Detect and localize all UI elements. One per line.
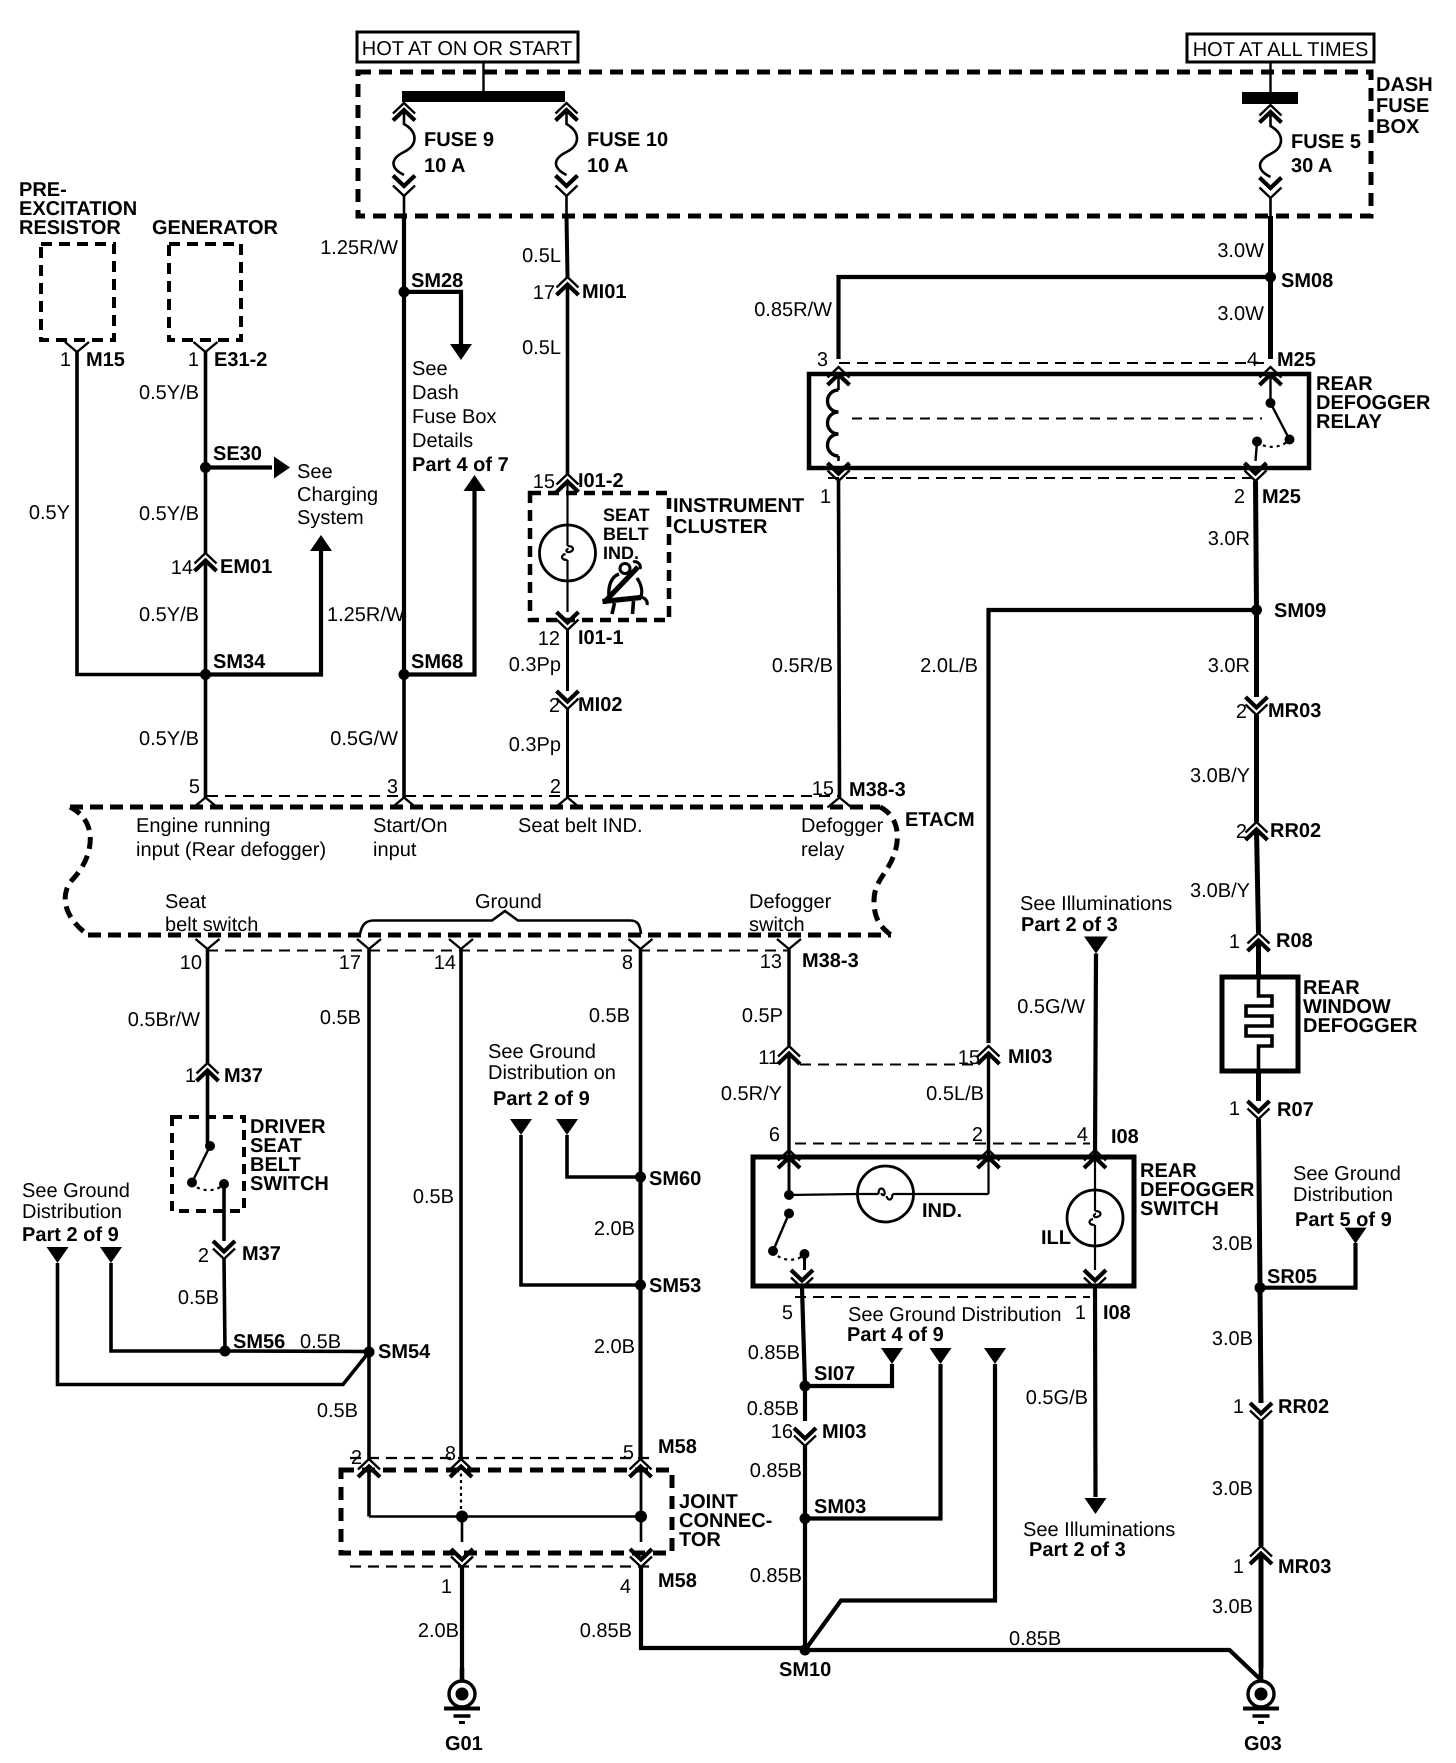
svg-text:5: 5: [189, 776, 200, 798]
svg-text:0.5B: 0.5B: [320, 1007, 361, 1029]
svg-text:0.5Y/B: 0.5Y/B: [139, 382, 199, 404]
arrow to See Charging System: [206, 465, 273, 469]
wire MI03 to SM03 (0.85B): [803, 1446, 807, 1519]
svg-text:DASH: DASH: [1376, 74, 1433, 96]
relay switch: [1269, 375, 1271, 403]
connector M58 dashed line (bottom): [350, 1565, 652, 1567]
wire E31-2 down to SE30 (0.5Y/B): [204, 352, 208, 467]
branch SM68 up-arrow to Part 4 of 7: [404, 491, 475, 675]
bus bar (fuse 5 feed): [1242, 92, 1298, 104]
connector MI03 dashed line: [800, 1064, 980, 1066]
wire arrow to SM60: [567, 1135, 641, 1177]
svg-text:0.3Pp: 0.3Pp: [509, 734, 561, 756]
svg-text:CLUSTER: CLUSTER: [673, 516, 768, 538]
svg-text:SM60: SM60: [649, 1168, 701, 1190]
svg-text:1: 1: [1075, 1302, 1086, 1324]
branch SR05 to ground distribution part 5 (arrow): [1260, 1243, 1356, 1288]
svg-text:0.85B: 0.85B: [747, 1398, 799, 1420]
switch pin 6 connector: [778, 1150, 800, 1161]
svg-text:2.0B: 2.0B: [594, 1336, 635, 1358]
joint connector pin 8: [450, 1459, 472, 1470]
svg-text:See Illuminations: See Illuminations: [1020, 893, 1172, 915]
arrow from illuminations: [1084, 937, 1108, 954]
wire SM34 to ETACM pin 5 (0.5Y/B): [204, 675, 208, 798]
ETACM pin 17: [357, 939, 381, 949]
svg-text:3: 3: [817, 349, 828, 371]
node SM03: [800, 1513, 811, 1524]
wire SM08 to relay pin 4 (3.0W): [1268, 277, 1273, 359]
svg-text:Dash: Dash: [412, 382, 459, 404]
relay mechanical link (dashed): [852, 418, 1262, 420]
svg-text:10 A: 10 A: [424, 155, 466, 177]
svg-text:1.25R/W: 1.25R/W: [320, 237, 398, 259]
svg-text:Details: Details: [412, 430, 473, 452]
node SR05: [1255, 1282, 1266, 1293]
joint connector box: [341, 1470, 672, 1553]
svg-text:17: 17: [339, 952, 361, 974]
svg-text:MI03: MI03: [822, 1421, 866, 1443]
ground G03: [1259, 1668, 1264, 1682]
branch arrow to SM10: [805, 1364, 995, 1650]
illumination lamp ILL: [1094, 1158, 1096, 1190]
svg-text:0.85B: 0.85B: [748, 1342, 800, 1364]
wire RR02 to R08 (3.0B/Y): [1257, 830, 1259, 933]
svg-text:2: 2: [1236, 821, 1247, 843]
wire fuse 5 to SM08 (3.0W): [1269, 198, 1272, 216]
HOT AT ALL TIMES box: [1187, 34, 1374, 62]
svg-text:See Ground: See Ground: [1293, 1163, 1401, 1185]
wire relay pin 1 to ETACM pin 15 (0.5R/B): [839, 481, 840, 798]
ground G01: [460, 1668, 465, 1682]
branch SM34 to charging system (1.25R/W): [206, 551, 322, 675]
svg-text:13: 13: [760, 951, 782, 973]
svg-text:3.0W: 3.0W: [1217, 240, 1264, 262]
svg-text:SWITCH: SWITCH: [250, 1173, 329, 1195]
svg-text:15: 15: [533, 471, 555, 493]
ETACM pin 3: [392, 798, 416, 808]
svg-text:0.5R/Y: 0.5R/Y: [721, 1083, 782, 1105]
svg-text:0.5Y/B: 0.5Y/B: [139, 604, 199, 626]
svg-text:4: 4: [620, 1576, 631, 1598]
svg-text:Charging: Charging: [297, 484, 378, 506]
svg-text:1: 1: [1229, 1098, 1240, 1120]
svg-text:3.0B: 3.0B: [1212, 1328, 1253, 1350]
wire SI07 to MI03 pin 16 (0.85B): [803, 1386, 807, 1421]
ETACM pin 5: [194, 798, 218, 808]
svg-text:MI01: MI01: [582, 281, 626, 303]
node SI07: [800, 1381, 811, 1392]
svg-text:ILL: ILL: [1041, 1227, 1071, 1249]
svg-text:SR05: SR05: [1267, 1266, 1317, 1288]
svg-text:SM10: SM10: [779, 1659, 831, 1681]
svg-text:2: 2: [1236, 701, 1247, 723]
svg-text:0.85B: 0.85B: [750, 1565, 802, 1587]
ETACM pin 2: [556, 798, 580, 808]
svg-text:M25: M25: [1277, 349, 1316, 371]
svg-text:0.5P: 0.5P: [742, 1005, 783, 1027]
svg-text:4: 4: [1247, 349, 1258, 371]
svg-text:6: 6: [769, 1124, 780, 1146]
wire ETACM pin 14 to joint connector pin 8 (0.5B): [459, 949, 463, 1459]
node SM56: [220, 1346, 231, 1357]
switch pin 2 connector: [978, 1150, 1000, 1161]
svg-text:2.0B: 2.0B: [594, 1218, 635, 1240]
svg-text:System: System: [297, 507, 364, 529]
wire EM01 to SM34 (0.5Y/B): [204, 561, 208, 675]
relay pin 2 connector: [1245, 463, 1267, 474]
svg-text:1: 1: [820, 486, 831, 508]
wire SM56 to SM54 (0.5B): [225, 1349, 369, 1353]
svg-text:M58: M58: [658, 1570, 697, 1592]
svg-text:0.5Y/B: 0.5Y/B: [139, 503, 199, 525]
arrow into SM56 branch: [100, 1247, 122, 1263]
svg-text:3.0B: 3.0B: [1212, 1233, 1253, 1255]
connector pin 1 M15: [65, 342, 89, 352]
svg-text:SM03: SM03: [814, 1496, 866, 1518]
branch SM08 to relay pin 3 (0.85R/W): [839, 277, 1271, 359]
svg-text:SEAT: SEAT: [603, 505, 650, 525]
svg-text:0.85B: 0.85B: [580, 1620, 632, 1642]
svg-text:4: 4: [1077, 1124, 1088, 1146]
branch SM28 to dash fuse box details: [404, 292, 461, 344]
svg-text:FUSE 5: FUSE 5: [1291, 131, 1361, 153]
svg-text:0.85B: 0.85B: [750, 1460, 802, 1482]
svg-text:SM09: SM09: [1274, 600, 1326, 622]
svg-text:14: 14: [171, 557, 193, 579]
svg-text:3.0B: 3.0B: [1212, 1596, 1253, 1618]
wire ETACM pin 8 to SM60 (0.5B): [639, 949, 643, 1177]
arrow for SM10 branch: [984, 1348, 1006, 1364]
svg-text:GENERATOR: GENERATOR: [152, 217, 278, 239]
svg-text:IND.: IND.: [603, 543, 639, 563]
svg-text:input (Rear defogger): input (Rear defogger): [136, 839, 326, 861]
svg-text:0.5G/W: 0.5G/W: [1017, 996, 1085, 1018]
svg-text:M38-3: M38-3: [802, 950, 859, 972]
svg-text:3.0R: 3.0R: [1208, 655, 1250, 677]
svg-text:RELAY: RELAY: [1316, 411, 1383, 433]
wire MI01 to I01-2 (0.5L): [566, 285, 570, 474]
connector 2 MR03: [1246, 697, 1268, 708]
svg-text:1.25R/W: 1.25R/W: [327, 604, 405, 626]
svg-text:relay: relay: [801, 839, 844, 861]
svg-text:M25: M25: [1262, 486, 1301, 508]
svg-text:TOR: TOR: [679, 1529, 721, 1551]
indicator lamp IND: [789, 1194, 858, 1195]
relay pin 4 connector: [1260, 367, 1282, 378]
svg-text:0.5B: 0.5B: [300, 1331, 341, 1353]
svg-text:Engine running: Engine running: [136, 815, 271, 837]
svg-text:Part 5 of 9: Part 5 of 9: [1295, 1209, 1392, 1231]
svg-text:I08: I08: [1103, 1302, 1131, 1324]
fuse F5: [1260, 105, 1282, 116]
wire connector 11 to switch pin 6 (0.5R/Y): [787, 1054, 790, 1157]
svg-text:0.5B: 0.5B: [178, 1287, 219, 1309]
svg-text:2: 2: [198, 1245, 209, 1267]
svg-text:See: See: [297, 461, 333, 483]
svg-text:Part 2 of 3: Part 2 of 3: [1021, 914, 1118, 936]
wire MR03 to ground G03 (3.0B): [1259, 1554, 1264, 1668]
ETACM pin 10: [196, 939, 220, 949]
svg-text:SM28: SM28: [411, 270, 463, 292]
connector 1 R07: [1248, 1101, 1270, 1112]
svg-text:0.5L: 0.5L: [522, 245, 561, 267]
svg-text:MR03: MR03: [1268, 700, 1321, 722]
wire switch pin 5 to SI07 (0.85B): [802, 1288, 805, 1386]
wire SM54 to joint connector pin 2 (0.5B): [367, 1352, 371, 1459]
arrow into SM53 branch: [510, 1119, 532, 1135]
connector 1 RR02 lower: [1250, 1403, 1272, 1414]
wire RR02 to MR03 (3.0B): [1259, 1421, 1264, 1546]
relay coil: [837, 375, 840, 390]
svg-text:SM53: SM53: [649, 1275, 701, 1297]
generator box: [169, 244, 241, 340]
joint connector internal wires: [367, 1467, 371, 1517]
arrow into SM54 branch: [47, 1247, 69, 1263]
svg-text:G01: G01: [445, 1733, 483, 1755]
svg-text:I01-1: I01-1: [578, 627, 624, 649]
connector I08 dashed line (bottom): [795, 1296, 1090, 1298]
joint connector pin 1 (to G01): [451, 1549, 473, 1560]
svg-text:10 A: 10 A: [587, 155, 629, 177]
svg-text:See Ground Distribution: See Ground Distribution: [848, 1304, 1061, 1326]
wire arrow to SM53: [521, 1135, 641, 1285]
svg-text:belt switch: belt switch: [165, 914, 258, 936]
svg-text:Seat belt IND.: Seat belt IND.: [518, 815, 643, 837]
switch pin 4 connector: [1084, 1150, 1106, 1161]
relay pin 3 connector: [828, 367, 850, 378]
svg-text:BOX: BOX: [1376, 116, 1420, 138]
wire SR05 to RR02 (3.0B): [1260, 1288, 1261, 1403]
svg-text:SM08: SM08: [1281, 270, 1333, 292]
branch SM09 to MI03 (2.0L/B): [989, 610, 1257, 1043]
dash fuse box boundary: [358, 72, 1371, 216]
svg-text:E31-2: E31-2: [214, 349, 267, 371]
svg-text:Distribution: Distribution: [22, 1201, 122, 1223]
svg-text:1: 1: [60, 349, 71, 371]
wire MI02 to ETACM pin 2 (0.3Pp): [566, 709, 569, 798]
svg-text:0.3Pp: 0.3Pp: [509, 654, 561, 676]
svg-text:R08: R08: [1276, 930, 1313, 952]
svg-text:MI02: MI02: [578, 694, 622, 716]
svg-text:Seat: Seat: [165, 891, 207, 913]
svg-text:12: 12: [538, 628, 560, 650]
wire pin 4 to SM10 (0.85B): [641, 1567, 805, 1648]
svg-text:2: 2: [972, 1124, 983, 1146]
joint connector pin 5 M58: [630, 1459, 652, 1470]
joint connector pin 4 M58: [630, 1549, 652, 1560]
wire MR03 to RR02 (3.0B/Y): [1254, 715, 1259, 822]
node SM60: [635, 1172, 646, 1183]
relay pin 1 connector: [828, 463, 850, 474]
svg-text:See Ground: See Ground: [488, 1041, 596, 1063]
wire SM53 to joint connector pin 5 (2.0B): [638, 1285, 642, 1459]
svg-text:0.5R/B: 0.5R/B: [772, 655, 833, 677]
wire SE30 to EM01 (0.5Y/B): [204, 468, 208, 554]
wire lamp to I01-1: [566, 581, 568, 612]
svg-text:M37: M37: [224, 1065, 263, 1087]
wire SM10 to G03 (0.85B): [805, 1650, 1261, 1680]
svg-text:FUSE 10: FUSE 10: [587, 129, 668, 151]
connector M38-3 dashed line (ETACM bottom): [207, 950, 789, 952]
wire SM03 to SM10 (0.85B): [803, 1519, 807, 1651]
wire arrow to SM56: [111, 1263, 225, 1351]
joint connector pin 2: [358, 1459, 380, 1470]
svg-text:3.0B/Y: 3.0B/Y: [1190, 880, 1250, 902]
rear window defogger element: [1246, 977, 1272, 1071]
svg-text:0.5B: 0.5B: [317, 1400, 358, 1422]
branch SM03 to arrow: [805, 1364, 941, 1519]
node SM54: [364, 1347, 375, 1358]
wire SM68 to ETACM pin 3 (0.5G/W): [402, 675, 406, 798]
svg-text:8: 8: [445, 1443, 456, 1465]
svg-text:11: 11: [758, 1047, 779, 1069]
svg-text:HOT AT ALL TIMES: HOT AT ALL TIMES: [1193, 39, 1369, 61]
svg-text:Defogger: Defogger: [749, 891, 832, 913]
svg-text:Distribution: Distribution: [1293, 1184, 1393, 1206]
wire M37 to SM56 (0.5B): [224, 1259, 225, 1351]
seat belt switch contacts: [206, 1071, 210, 1146]
connector M25 dashed line (bottom): [828, 477, 1259, 479]
svg-text:0.5B: 0.5B: [413, 1186, 454, 1208]
svg-text:17: 17: [533, 282, 555, 304]
seat belt icon: [603, 562, 648, 614]
svg-text:0.5Y/B: 0.5Y/B: [139, 728, 199, 750]
svg-text:0.85R/W: 0.85R/W: [754, 299, 832, 321]
node SM09: [1251, 605, 1262, 616]
svg-text:Part 2 of 3: Part 2 of 3: [1029, 1539, 1126, 1561]
node SM08: [1265, 272, 1276, 283]
node SM10: [800, 1645, 811, 1656]
wire ETACM pin 17 to SM54 (0.5B): [367, 949, 371, 1352]
svg-text:MR03: MR03: [1278, 1556, 1331, 1578]
svg-text:0.5Y: 0.5Y: [29, 502, 70, 524]
svg-text:BELT: BELT: [603, 524, 649, 544]
wire defogger to R07 (3.0B): [1256, 1071, 1261, 1101]
svg-text:3.0B: 3.0B: [1212, 1478, 1253, 1500]
node SM34: [200, 669, 211, 680]
connector M38-3 dashed line (ETACM top): [207, 795, 840, 797]
connector I08 dashed line (top): [795, 1143, 1090, 1145]
svg-text:2: 2: [550, 776, 561, 798]
svg-text:16: 16: [771, 1421, 793, 1443]
svg-text:SE30: SE30: [213, 443, 262, 465]
svg-text:ETACM: ETACM: [905, 809, 975, 831]
svg-text:3: 3: [387, 776, 398, 798]
wire ETACM pin 13 to connector 11 (0.5P): [787, 949, 790, 1046]
HOT AT ON OR START box: [357, 32, 578, 62]
svg-text:3.0W: 3.0W: [1217, 303, 1264, 325]
pre-excitation resistor box: [41, 244, 114, 340]
connector 14 EM01: [195, 553, 217, 564]
svg-text:Start/On: Start/On: [373, 815, 447, 837]
svg-text:14: 14: [434, 952, 456, 974]
bus bar (fuse 9/10 feed): [402, 91, 565, 102]
arrow for SM03 branch: [930, 1348, 952, 1364]
node SM68: [399, 669, 410, 680]
svg-text:G03: G03: [1244, 1733, 1282, 1755]
svg-text:1: 1: [1233, 1556, 1244, 1578]
rear defogger relay box: [809, 374, 1309, 468]
wire illuminations to switch pin 4 (0.5G/W): [1095, 954, 1096, 1158]
node SE30: [200, 462, 211, 473]
wire MI03 to switch pin 2 (0.5L/B): [987, 1054, 990, 1157]
wire fuse 9 to SM28 (1.25R/W): [403, 196, 406, 216]
svg-text:M37: M37: [242, 1243, 281, 1265]
wire arrow to SM54: [58, 1263, 370, 1385]
svg-text:HOT AT ON OR START: HOT AT ON OR START: [362, 38, 572, 60]
svg-text:1: 1: [1229, 931, 1240, 953]
svg-text:3.0R: 3.0R: [1208, 528, 1250, 550]
svg-text:RR02: RR02: [1270, 820, 1321, 842]
svg-text:3.0B/Y: 3.0B/Y: [1190, 765, 1250, 787]
svg-text:Defogger: Defogger: [801, 815, 884, 837]
svg-text:15: 15: [958, 1047, 980, 1069]
wire SM09 to MR03 (3.0R): [1254, 610, 1259, 697]
node SM53: [635, 1280, 646, 1291]
svg-text:30 A: 30 A: [1291, 155, 1333, 177]
ETACM pin 8: [629, 939, 653, 949]
svg-text:SWITCH: SWITCH: [1140, 1198, 1219, 1220]
seat belt indicator lamp: [566, 482, 568, 525]
svg-text:FUSE 9: FUSE 9: [424, 129, 494, 151]
svg-text:Part 2 of 9: Part 2 of 9: [493, 1088, 590, 1110]
wire pin 1 to ground G01 (2.0B): [460, 1567, 464, 1668]
svg-text:MI03: MI03: [1008, 1046, 1052, 1068]
switch pin 1 connector: [1084, 1270, 1106, 1281]
svg-text:See Illuminations: See Illuminations: [1023, 1519, 1175, 1541]
wire fuse 10 to MI01 (0.5L): [565, 196, 568, 216]
connector pin 1 E31-2: [194, 342, 218, 352]
svg-text:8: 8: [622, 952, 633, 974]
svg-text:5: 5: [623, 1442, 634, 1464]
svg-text:0.5L/B: 0.5L/B: [926, 1083, 984, 1105]
svg-text:0.85B: 0.85B: [1009, 1628, 1061, 1650]
svg-text:2: 2: [549, 695, 560, 717]
svg-text:R07: R07: [1277, 1099, 1314, 1121]
svg-text:1: 1: [1233, 1396, 1244, 1418]
connector 1 M37: [197, 1063, 219, 1074]
connector 17 MI01: [557, 277, 579, 288]
svg-text:Distribution on: Distribution on: [488, 1062, 616, 1084]
svg-text:SM68: SM68: [411, 651, 463, 673]
arrow into SM60 branch: [556, 1119, 578, 1135]
svg-text:IND.: IND.: [922, 1200, 962, 1222]
ETACM pin 13: [777, 939, 801, 949]
svg-text:SM34: SM34: [213, 651, 266, 673]
svg-text:M58: M58: [658, 1436, 697, 1458]
rear defogger switch box: [753, 1157, 1134, 1286]
driver seat belt switch box: [172, 1117, 244, 1211]
node SM28: [399, 286, 410, 297]
connector 12 I01-1: [557, 612, 579, 623]
svg-text:switch: switch: [749, 914, 805, 936]
ETACM box: [70, 805, 880, 810]
svg-text:SM54: SM54: [378, 1341, 431, 1363]
wire from HOT AT ALL TIMES to bus bar: [1269, 62, 1271, 92]
svg-text:See Ground: See Ground: [22, 1180, 130, 1202]
wire ETACM pin 10 to M37 (0.5Br/W): [206, 949, 210, 1063]
svg-text:0.5B: 0.5B: [589, 1005, 630, 1027]
svg-text:1: 1: [441, 1576, 452, 1598]
svg-text:EM01: EM01: [220, 556, 272, 578]
svg-text:FUSE: FUSE: [1376, 95, 1429, 117]
connector 2 M37 lower: [213, 1241, 235, 1252]
svg-text:DEFOGGER: DEFOGGER: [1303, 1015, 1418, 1037]
svg-text:Ground: Ground: [475, 891, 542, 913]
svg-text:RESISTOR: RESISTOR: [19, 217, 121, 239]
wire SM28 to SM68 (0.5G/W): [402, 292, 406, 675]
arrow for SI07 branch: [881, 1348, 903, 1364]
